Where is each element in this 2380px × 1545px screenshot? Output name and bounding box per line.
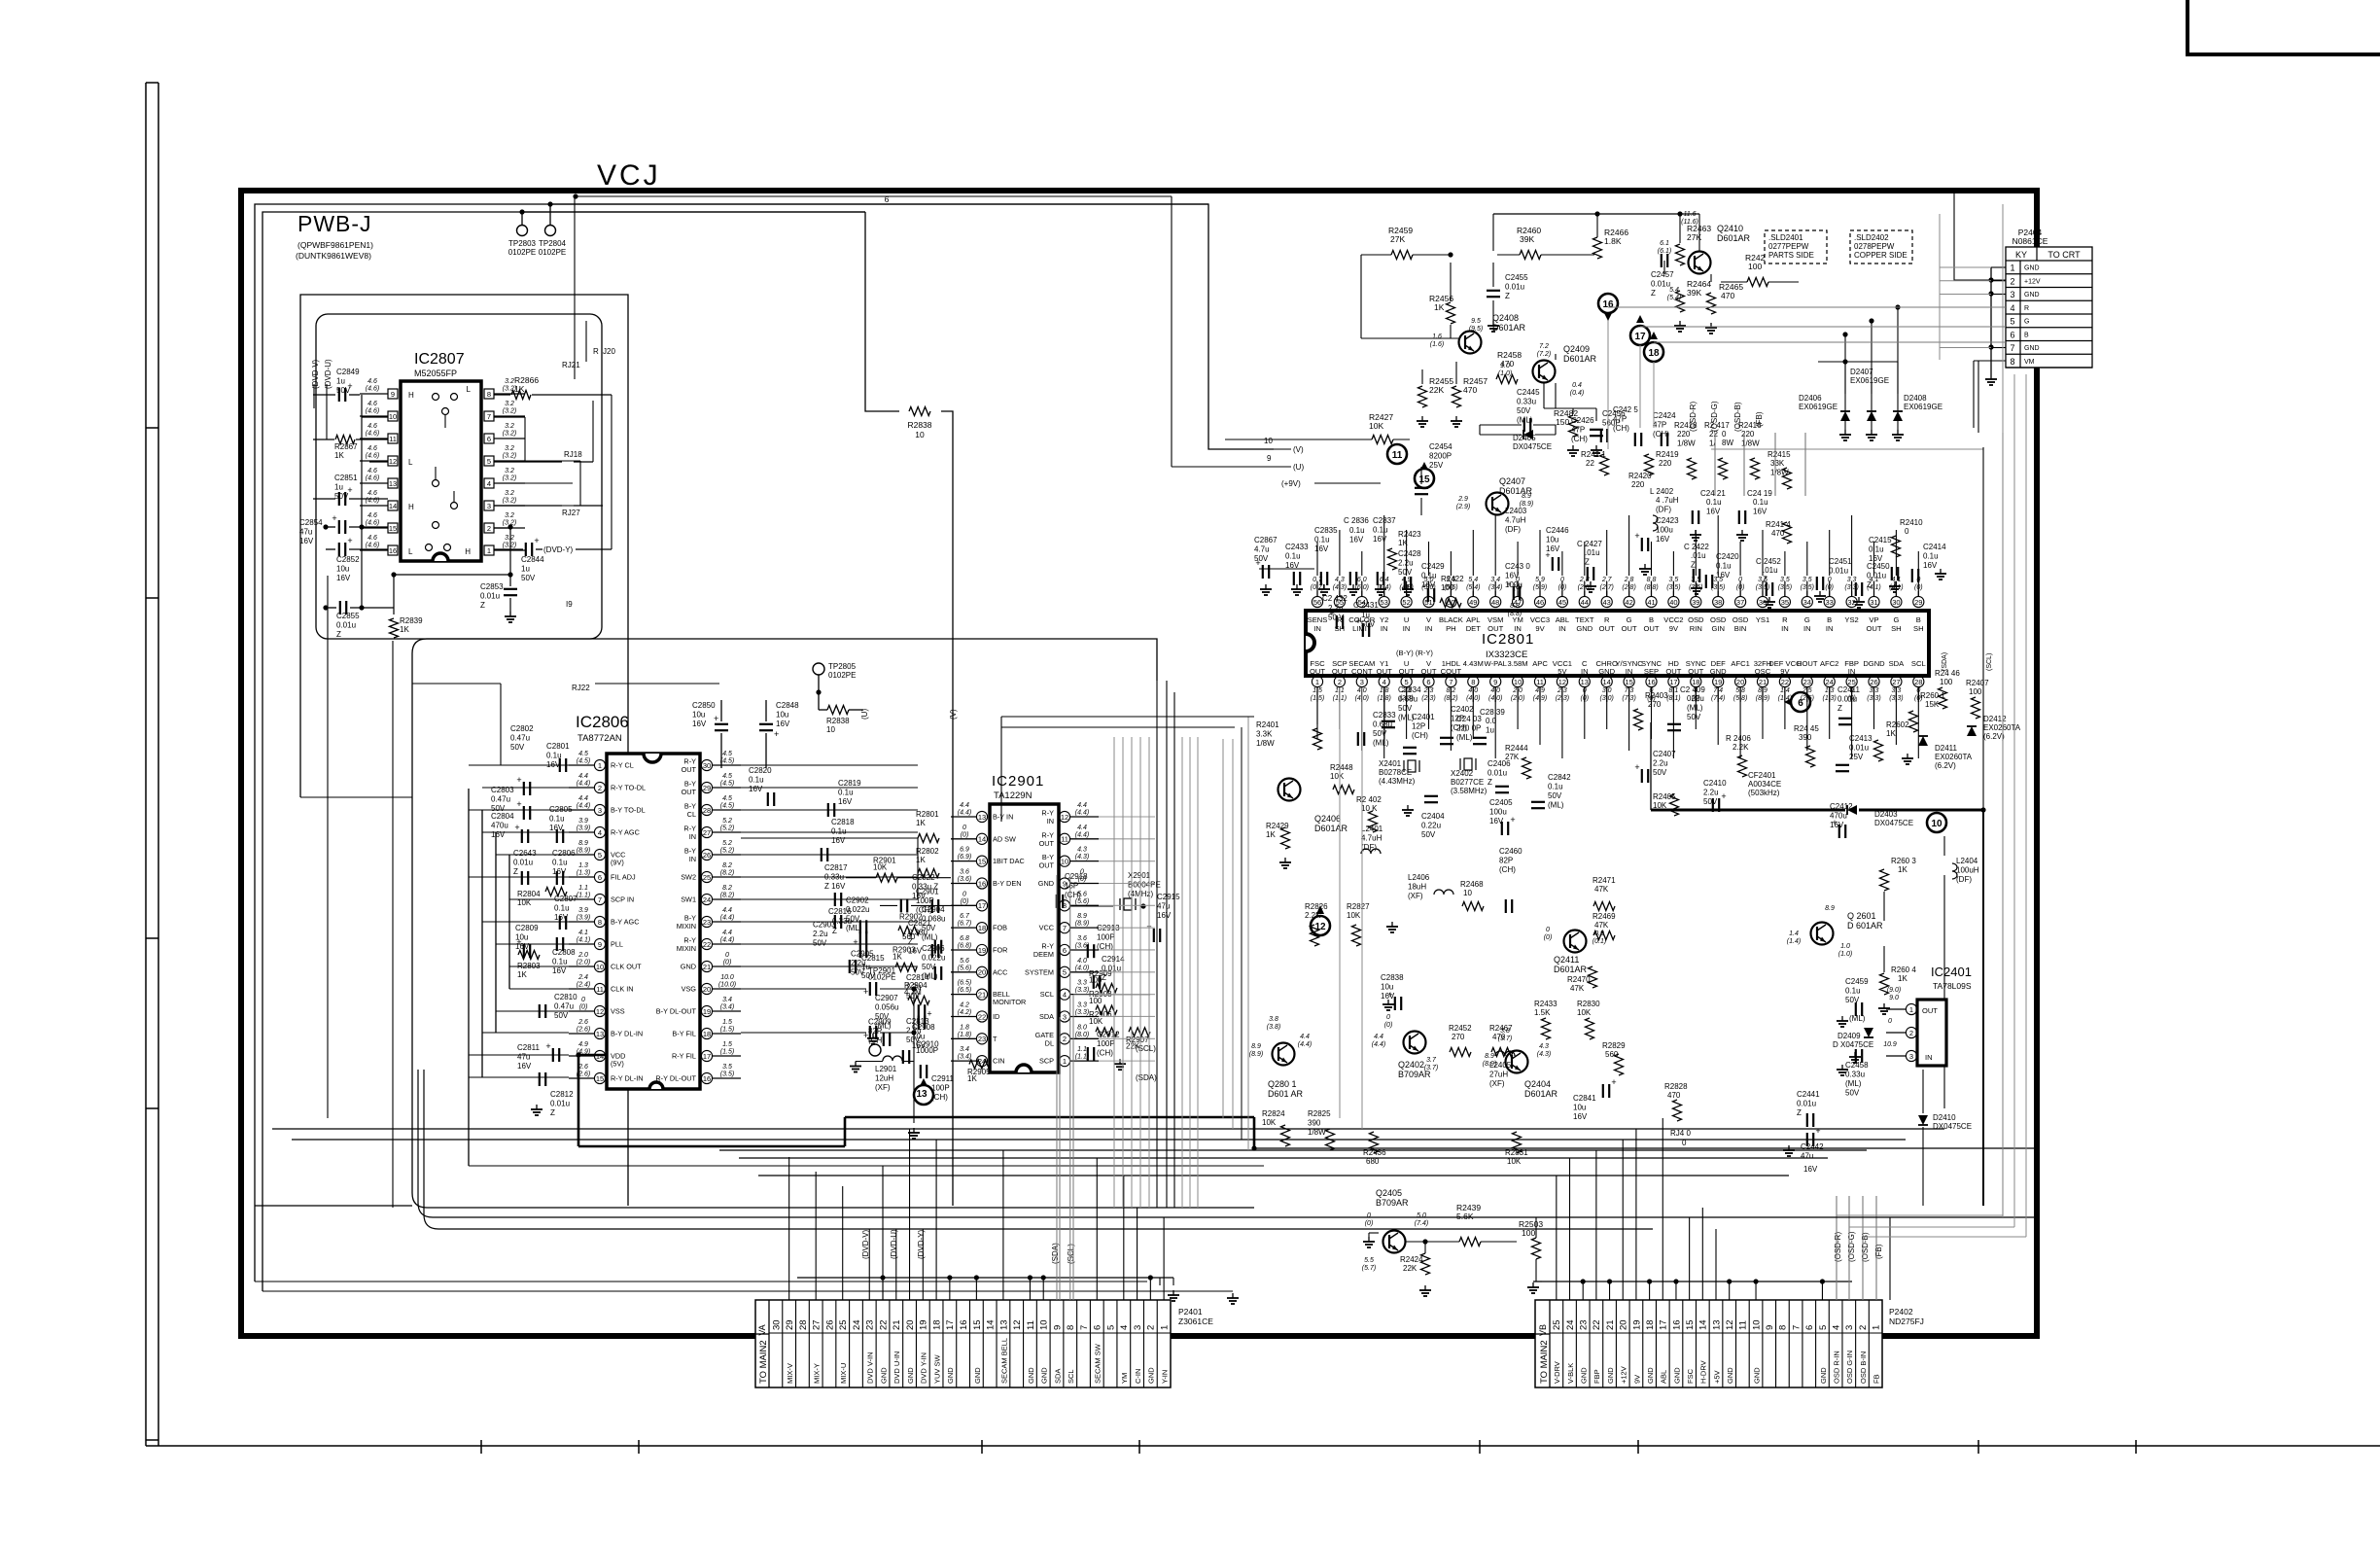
svg-text:2: 2 bbox=[1146, 1325, 1157, 1330]
svg-text:(DVD-Y): (DVD-Y) bbox=[543, 545, 574, 554]
svg-text:220: 220 bbox=[1631, 480, 1645, 489]
IC2806 pin 26 bbox=[701, 849, 712, 860]
svg-text:(ML): (ML) bbox=[1849, 1014, 1866, 1023]
svg-text:TEXT: TEXT bbox=[1575, 615, 1594, 624]
svg-text:3.58M: 3.58M bbox=[1508, 659, 1528, 668]
svg-text:(5.2): (5.2) bbox=[720, 825, 734, 832]
ground right of C2414 bbox=[1940, 569, 1942, 574]
IC2801 pin 1 bbox=[1312, 676, 1322, 686]
svg-text:11: 11 bbox=[1392, 450, 1403, 461]
svg-text:43: 43 bbox=[1603, 598, 1611, 607]
svg-text:C2819: C2819 bbox=[838, 779, 861, 788]
capacitor C2815 bbox=[849, 960, 851, 973]
svg-text:Q2409: Q2409 bbox=[1563, 344, 1590, 354]
svg-text:GND: GND bbox=[2024, 345, 2040, 352]
svg-text:470: 470 bbox=[1463, 385, 1477, 395]
IC2806 pin 11 bbox=[594, 983, 605, 994]
svg-text:D2406: D2406 bbox=[1799, 394, 1822, 403]
svg-text:C2851: C2851 bbox=[334, 474, 358, 482]
svg-text:OUT: OUT bbox=[1866, 624, 1881, 633]
svg-text:OUT: OUT bbox=[1420, 667, 1436, 676]
svg-text:1: 1 bbox=[487, 546, 491, 555]
svg-text:1.6: 1.6 bbox=[1432, 334, 1442, 340]
svg-text:50V: 50V bbox=[1421, 830, 1436, 839]
svg-text:C2820: C2820 bbox=[749, 766, 772, 775]
svg-text:150: 150 bbox=[1556, 417, 1569, 427]
svg-text:4: 4 bbox=[598, 828, 602, 837]
svg-text:+: + bbox=[1611, 1077, 1616, 1087]
svg-text:12P: 12P bbox=[1412, 722, 1425, 731]
svg-text:10.9: 10.9 bbox=[1883, 1041, 1897, 1048]
svg-text:SDA: SDA bbox=[1053, 1369, 1062, 1384]
svg-text:2: 2 bbox=[2010, 276, 2014, 286]
IC2901 pin 2 bbox=[1059, 1034, 1069, 1044]
svg-text:5.4: 5.4 bbox=[1669, 287, 1679, 294]
svg-text:56: 56 bbox=[1313, 598, 1321, 607]
IC2806 pin 1 bbox=[594, 759, 605, 770]
svg-text:18: 18 bbox=[1648, 348, 1660, 359]
svg-text:0: 0 bbox=[1738, 577, 1742, 583]
svg-text:3.2: 3.2 bbox=[505, 378, 514, 385]
svg-text:IN: IN bbox=[1514, 624, 1522, 633]
svg-text:50V: 50V bbox=[1548, 791, 1562, 800]
svg-text:R-Y FIL: R-Y FIL bbox=[672, 1052, 696, 1061]
IC2807 pin 4 bbox=[484, 478, 494, 488]
svg-text:2.2u: 2.2u bbox=[1398, 559, 1414, 568]
svg-text:MIXIN: MIXIN bbox=[677, 944, 696, 953]
svg-text:VCJ: VCJ bbox=[597, 159, 661, 192]
svg-text:R2469: R2469 bbox=[1592, 912, 1616, 921]
svg-text:AFC2: AFC2 bbox=[1820, 659, 1838, 668]
svg-text:10K: 10K bbox=[1089, 1017, 1103, 1026]
svg-text:OUT: OUT bbox=[1332, 667, 1347, 676]
svg-text:470: 470 bbox=[1667, 1091, 1681, 1100]
svg-text:50V: 50V bbox=[1517, 406, 1531, 415]
transistor Q2409 bbox=[1533, 361, 1556, 383]
svg-text:10: 10 bbox=[826, 725, 835, 734]
svg-text:3.5: 3.5 bbox=[1802, 577, 1812, 583]
svg-text:(7.2): (7.2) bbox=[1537, 351, 1551, 358]
svg-text:C2809: C2809 bbox=[515, 924, 539, 932]
svg-text:15: 15 bbox=[1685, 1319, 1696, 1330]
wires from IC2801 top pins up bbox=[1316, 591, 1318, 596]
svg-text:(1.3): (1.3) bbox=[577, 870, 590, 877]
IC2806 pin 18 bbox=[701, 1028, 712, 1038]
P2404 signal wires R G B VM bbox=[1799, 306, 2006, 308]
IC2807 pin 3 bbox=[484, 501, 494, 510]
svg-text:(DVD-U): (DVD-U) bbox=[890, 1229, 898, 1259]
capacitor C2844 bbox=[525, 543, 527, 556]
svg-text:0: 0 bbox=[962, 825, 966, 831]
svg-text:OUT: OUT bbox=[682, 788, 697, 796]
IC2901 pin 1 bbox=[1059, 1056, 1069, 1067]
svg-text:25: 25 bbox=[838, 1319, 849, 1330]
svg-text:(3.5): (3.5) bbox=[1666, 584, 1680, 591]
svg-text:Z: Z bbox=[1505, 292, 1510, 300]
svg-text:Z: Z bbox=[1487, 778, 1492, 787]
svg-text:TP2803: TP2803 bbox=[508, 239, 537, 248]
svg-text:Z: Z bbox=[513, 867, 518, 876]
svg-text:SW1: SW1 bbox=[681, 895, 696, 904]
svg-text:3: 3 bbox=[1063, 1012, 1067, 1021]
svg-text:Q2402: Q2402 bbox=[1398, 1060, 1424, 1070]
svg-text:FB: FB bbox=[1872, 1374, 1881, 1384]
svg-text:R260 1: R260 1 bbox=[1920, 691, 1945, 700]
svg-text:18: 18 bbox=[703, 1030, 711, 1038]
IC2806 pin 25 bbox=[701, 871, 712, 882]
transistor Q2801 bbox=[1273, 1043, 1295, 1066]
transistor Q2408 bbox=[1459, 332, 1482, 354]
svg-text:0: 0 bbox=[1905, 527, 1909, 536]
svg-text:22: 22 bbox=[978, 1012, 986, 1021]
svg-text:OUT: OUT bbox=[1688, 667, 1703, 676]
IC2807 pin 13 bbox=[388, 478, 398, 488]
svg-text:(4.5): (4.5) bbox=[577, 758, 590, 765]
svg-text:(8.9): (8.9) bbox=[1075, 921, 1089, 928]
svg-text:3: 3 bbox=[598, 806, 602, 815]
svg-text:(1.5): (1.5) bbox=[720, 1049, 734, 1056]
svg-text:SECAM SW: SECAM SW bbox=[1094, 1343, 1102, 1384]
ground right of R2827 bbox=[1391, 922, 1393, 927]
svg-text:(DF): (DF) bbox=[1956, 875, 1972, 884]
svg-text:21: 21 bbox=[703, 963, 711, 971]
svg-text:OUT: OUT bbox=[1922, 1006, 1938, 1015]
svg-text:C2918: C2918 bbox=[1065, 872, 1088, 881]
svg-text:VA: VA bbox=[757, 1324, 767, 1335]
IC2807 pin 15 bbox=[388, 523, 398, 533]
svg-text:0.1u: 0.1u bbox=[831, 827, 847, 836]
IC2801 pin 52 bbox=[1401, 596, 1412, 607]
svg-text:10: 10 bbox=[389, 412, 397, 421]
wire to P2402 pin 21 bbox=[1609, 1281, 1611, 1282]
svg-text:(DF): (DF) bbox=[1656, 506, 1671, 514]
svg-text:270: 270 bbox=[1452, 1033, 1465, 1041]
svg-text:OSD: OSD bbox=[1732, 615, 1749, 624]
svg-text:C2801: C2801 bbox=[546, 742, 570, 751]
resistor R2836 bbox=[827, 706, 849, 715]
svg-text:B-Y DL-OUT: B-Y DL-OUT bbox=[656, 1007, 697, 1016]
wire bus loop outer bbox=[255, 204, 1274, 1282]
wire Q2409 Q2410 outputs to CRT table bbox=[1555, 383, 1557, 408]
svg-text:GND: GND bbox=[1646, 1367, 1655, 1384]
svg-text:C2817: C2817 bbox=[824, 863, 848, 872]
svg-text:8W: 8W bbox=[1722, 439, 1733, 447]
wire to P2401 pin 22 bbox=[882, 1166, 884, 1300]
IC2801 pin 24 bbox=[1824, 676, 1835, 686]
svg-text:22: 22 bbox=[1709, 430, 1718, 439]
svg-text:4: 4 bbox=[2010, 303, 2014, 313]
svg-text:27K: 27K bbox=[1505, 753, 1520, 761]
svg-text:(3.5): (3.5) bbox=[1778, 584, 1792, 591]
OSD vertical wires from top to P2402 bbox=[1714, 433, 1716, 496]
svg-text:3.2: 3.2 bbox=[505, 401, 514, 407]
svg-text:4.3: 4.3 bbox=[1335, 577, 1345, 583]
svg-text:23: 23 bbox=[1803, 678, 1811, 686]
svg-text:.01u: .01u bbox=[1585, 548, 1600, 557]
vertical drops right of IC2901 bundle bbox=[1222, 739, 1224, 1118]
svg-text:B: B bbox=[2024, 332, 2029, 338]
svg-text:12: 12 bbox=[1725, 1319, 1735, 1330]
svg-text:MIX-V: MIX-V bbox=[786, 1363, 794, 1384]
wire to P2402 pin 20 bbox=[1622, 1140, 1624, 1300]
svg-text:38: 38 bbox=[1714, 598, 1722, 607]
svg-text:1.5: 1.5 bbox=[722, 1019, 732, 1026]
svg-text:20: 20 bbox=[978, 968, 986, 977]
IC2807 pin 12 bbox=[388, 456, 398, 466]
svg-text:(1.5): (1.5) bbox=[720, 1027, 734, 1034]
wire to P2401 pin 1 bbox=[1163, 1217, 1165, 1300]
svg-text:C 2422: C 2422 bbox=[1684, 543, 1709, 551]
svg-text:C2806: C2806 bbox=[552, 849, 576, 858]
svg-text:6: 6 bbox=[1426, 678, 1430, 686]
svg-text:3.6: 3.6 bbox=[1077, 935, 1087, 942]
svg-text:1.5K: 1.5K bbox=[1534, 1008, 1551, 1017]
svg-text:SCL: SCL bbox=[1911, 659, 1926, 668]
IC2801 pin 40 bbox=[1668, 596, 1679, 607]
ground near L2901 bbox=[855, 1062, 857, 1067]
svg-text:1K: 1K bbox=[892, 953, 902, 962]
svg-text:0.1u: 0.1u bbox=[838, 789, 854, 797]
svg-text:SCL: SCL bbox=[1040, 990, 1054, 999]
svg-text:1.3: 1.3 bbox=[578, 862, 588, 869]
svg-text:(4.4): (4.4) bbox=[1075, 831, 1089, 838]
svg-text:HOUT: HOUT bbox=[1797, 659, 1818, 668]
svg-text:(0): (0) bbox=[1914, 584, 1923, 591]
svg-text:C2423: C2423 bbox=[1656, 516, 1679, 525]
svg-text:C2855: C2855 bbox=[336, 612, 360, 620]
svg-text:+: + bbox=[1255, 558, 1260, 568]
svg-text:6: 6 bbox=[487, 435, 491, 443]
svg-text:R2468: R2468 bbox=[1460, 880, 1484, 889]
svg-text:(DUNTK9861WEV8): (DUNTK9861WEV8) bbox=[296, 251, 371, 261]
IC2901 pin 12 bbox=[1059, 811, 1069, 822]
svg-text:(DVD-V): (DVD-V) bbox=[861, 1229, 870, 1259]
svg-text:(0): (0) bbox=[1558, 584, 1567, 591]
svg-text:46: 46 bbox=[1536, 598, 1544, 607]
svg-text:4.5: 4.5 bbox=[578, 751, 588, 757]
svg-text:7: 7 bbox=[1063, 924, 1067, 932]
IC2801 pin 3 bbox=[1356, 676, 1367, 686]
svg-text:19: 19 bbox=[1714, 678, 1722, 686]
svg-text:16V: 16V bbox=[1803, 1165, 1818, 1174]
svg-text:1K: 1K bbox=[1434, 302, 1445, 312]
wire to P2401 pin 10 bbox=[1042, 1290, 1044, 1292]
svg-text:8: 8 bbox=[598, 918, 602, 927]
svg-text:AFC1: AFC1 bbox=[1731, 659, 1749, 668]
svg-text:3.5: 3.5 bbox=[1669, 577, 1679, 583]
svg-text:4.6: 4.6 bbox=[367, 512, 377, 519]
svg-text:(QPWBF9861PEN1): (QPWBF9861PEN1) bbox=[297, 240, 373, 250]
svg-text:19: 19 bbox=[1631, 1319, 1642, 1330]
svg-text:24: 24 bbox=[703, 895, 711, 904]
svg-text:TP2804: TP2804 bbox=[539, 239, 567, 248]
svg-text:10u: 10u bbox=[1573, 1104, 1586, 1112]
IC2806 body bbox=[607, 754, 700, 1089]
IC2806 pin 28 bbox=[701, 804, 712, 815]
svg-text:(2.7): (2.7) bbox=[1599, 584, 1613, 591]
IC2806 pin 17 bbox=[701, 1050, 712, 1061]
svg-text:(CH): (CH) bbox=[1065, 891, 1081, 899]
svg-text:L2406: L2406 bbox=[1408, 873, 1430, 882]
svg-text:GND: GND bbox=[1710, 667, 1727, 676]
svg-text:(3.8): (3.8) bbox=[1267, 1024, 1280, 1031]
svg-text:+: + bbox=[1329, 609, 1334, 618]
svg-text:16: 16 bbox=[1647, 678, 1655, 686]
wires from diodes D2406-8 up bbox=[1844, 362, 1846, 394]
svg-text:(4.4): (4.4) bbox=[577, 803, 590, 810]
svg-text:C2454: C2454 bbox=[1429, 442, 1452, 451]
svg-text:26: 26 bbox=[1870, 678, 1877, 686]
svg-text:21: 21 bbox=[1759, 678, 1767, 686]
svg-text:(3.58MHz): (3.58MHz) bbox=[1451, 787, 1487, 795]
svg-text:(4.2): (4.2) bbox=[958, 1009, 971, 1016]
wire to P2401 pin 18 bbox=[935, 1140, 937, 1300]
svg-text:G: G bbox=[1627, 615, 1632, 624]
svg-text:(0): (0) bbox=[723, 960, 732, 966]
IC2801 pin 27 bbox=[1891, 676, 1902, 686]
svg-text:D601 AR: D601 AR bbox=[1268, 1089, 1304, 1099]
svg-text:50V: 50V bbox=[1373, 729, 1387, 738]
svg-text:C2908: C2908 bbox=[912, 1023, 935, 1032]
IC2806 pin 13 bbox=[594, 1028, 605, 1038]
svg-text:VCC2: VCC2 bbox=[1663, 615, 1683, 624]
svg-text:SW2: SW2 bbox=[681, 873, 696, 882]
IC2801 pin 42 bbox=[1624, 596, 1634, 607]
wire to P2402 pin 14 bbox=[1701, 1208, 1703, 1300]
svg-text:Q2411: Q2411 bbox=[1554, 955, 1579, 965]
resistor R2867 bbox=[335, 436, 355, 444]
svg-text:TO CRT: TO CRT bbox=[2047, 250, 2081, 260]
svg-text:COPPER SIDE: COPPER SIDE bbox=[1854, 251, 1907, 260]
IC2801 pin 38 bbox=[1713, 596, 1724, 607]
ground under D2411 bbox=[1907, 754, 1908, 758]
svg-text:10K: 10K bbox=[1369, 421, 1383, 431]
svg-text:C2457: C2457 bbox=[1651, 270, 1674, 279]
svg-text:220 0P: 220 0P bbox=[1456, 724, 1481, 733]
svg-text:34: 34 bbox=[1803, 598, 1811, 607]
svg-text:C2867: C2867 bbox=[1254, 536, 1277, 544]
svg-text:(0): (0) bbox=[961, 898, 969, 905]
svg-text:8: 8 bbox=[1471, 678, 1475, 686]
svg-text:B-Y AGC: B-Y AGC bbox=[611, 918, 639, 927]
svg-text:KY: KY bbox=[2015, 250, 2027, 260]
svg-text:R2826: R2826 bbox=[1305, 902, 1328, 911]
IC2806 pin 19 bbox=[701, 1005, 712, 1016]
svg-text:TA78L09S: TA78L09S bbox=[1933, 981, 1972, 991]
svg-text:1u: 1u bbox=[521, 565, 530, 574]
svg-text:11: 11 bbox=[1061, 835, 1068, 844]
OSD wires lower segment bbox=[1836, 1215, 1837, 1300]
svg-text:+: + bbox=[347, 485, 352, 495]
svg-text:50V: 50V bbox=[813, 938, 827, 947]
svg-text:R2802: R2802 bbox=[916, 847, 939, 856]
svg-text:1K: 1K bbox=[967, 1074, 977, 1083]
svg-text:(5.4): (5.4) bbox=[1667, 295, 1681, 301]
svg-text:390: 390 bbox=[1799, 733, 1812, 742]
ground under C2812 bbox=[536, 1105, 538, 1109]
svg-text:0.056u: 0.056u bbox=[875, 1002, 898, 1011]
left bottom corner wires bbox=[255, 1205, 412, 1207]
svg-text:R: R bbox=[1782, 615, 1788, 624]
svg-text:GND: GND bbox=[1580, 1367, 1589, 1384]
svg-text:C2404: C2404 bbox=[1421, 812, 1445, 821]
svg-text:C2450: C2450 bbox=[1867, 562, 1890, 571]
svg-text:3: 3 bbox=[487, 502, 491, 510]
svg-text:C2838: C2838 bbox=[1381, 973, 1404, 982]
svg-text:2.8: 2.8 bbox=[1624, 577, 1634, 583]
svg-text:23: 23 bbox=[978, 1035, 986, 1043]
svg-text:4 .7uH: 4 .7uH bbox=[1656, 496, 1679, 505]
svg-text:+: + bbox=[1510, 815, 1515, 825]
svg-text:SCP: SCP bbox=[1039, 1057, 1054, 1066]
connector P2404 table bbox=[2006, 247, 2092, 368]
svg-text:+: + bbox=[927, 1009, 931, 1019]
svg-text:Q 2601: Q 2601 bbox=[1847, 911, 1876, 921]
svg-text:11: 11 bbox=[1536, 678, 1544, 686]
vertical x591 top feed bbox=[574, 196, 576, 379]
svg-text:(2.6): (2.6) bbox=[577, 1027, 590, 1034]
svg-text:(11.6): (11.6) bbox=[1681, 219, 1698, 226]
wire to P2402 pin 16 bbox=[1675, 1281, 1677, 1282]
IC2801 pin 51 bbox=[1423, 596, 1434, 607]
svg-text:(+9V): (+9V) bbox=[1281, 479, 1301, 488]
IC2901 pin 4 bbox=[1059, 989, 1069, 1000]
svg-text:4.6: 4.6 bbox=[367, 401, 377, 407]
svg-text:+5V: +5V bbox=[1712, 1370, 1721, 1384]
svg-text:(4.43MHz): (4.43MHz) bbox=[1379, 777, 1416, 786]
svg-text:10u: 10u bbox=[1546, 536, 1558, 544]
svg-text:0.01u: 0.01u bbox=[1867, 572, 1886, 580]
svg-text:23: 23 bbox=[865, 1319, 876, 1330]
svg-text:(ML): (ML) bbox=[1456, 733, 1473, 742]
svg-text:(3.7): (3.7) bbox=[1498, 1036, 1512, 1042]
wire to P2401 pin 6 bbox=[1096, 1158, 1098, 1300]
svg-text:IC2807: IC2807 bbox=[414, 351, 465, 368]
svg-text:IC2801: IC2801 bbox=[1482, 631, 1534, 648]
svg-text:16: 16 bbox=[1671, 1319, 1682, 1330]
svg-text:4.1: 4.1 bbox=[578, 930, 588, 936]
svg-text:IN: IN bbox=[689, 855, 696, 863]
svg-text:15: 15 bbox=[978, 857, 986, 865]
svg-text:R-Y DL-IN: R-Y DL-IN bbox=[611, 1074, 644, 1083]
svg-text:(DVD-V): (DVD-V) bbox=[311, 359, 320, 389]
svg-text:1.1: 1.1 bbox=[1077, 1046, 1087, 1053]
wire pin1 FSC to R2401 bbox=[1316, 702, 1318, 724]
svg-text:B0277CE: B0277CE bbox=[1451, 778, 1484, 787]
svg-text:C2401: C2401 bbox=[1412, 713, 1435, 721]
svg-text:2.2u: 2.2u bbox=[813, 930, 828, 938]
svg-text:C2415: C2415 bbox=[1869, 536, 1892, 544]
svg-text:EX0619GE: EX0619GE bbox=[1799, 403, 1837, 411]
svg-text:(4.4): (4.4) bbox=[720, 915, 734, 922]
svg-text:(3.2): (3.2) bbox=[503, 543, 516, 549]
svg-text:13: 13 bbox=[596, 1030, 604, 1038]
svg-text:8: 8 bbox=[1778, 1325, 1789, 1330]
svg-text:0.01u: 0.01u bbox=[1505, 283, 1524, 292]
svg-text:1K: 1K bbox=[1266, 830, 1276, 839]
svg-text:5: 5 bbox=[2010, 317, 2014, 327]
svg-text:C2812: C2812 bbox=[550, 1090, 574, 1099]
svg-text:OUT: OUT bbox=[1310, 667, 1325, 676]
svg-text:16V: 16V bbox=[1706, 508, 1721, 516]
svg-text:53: 53 bbox=[1381, 598, 1388, 607]
transistor Q2405 bbox=[1383, 1231, 1406, 1253]
svg-text:20: 20 bbox=[1736, 678, 1744, 686]
svg-text:D601AR: D601AR bbox=[1524, 1089, 1558, 1099]
svg-text:16V: 16V bbox=[831, 836, 846, 845]
IC2801 pin 33 bbox=[1824, 596, 1835, 607]
IC2806 pin 29 bbox=[701, 782, 712, 792]
